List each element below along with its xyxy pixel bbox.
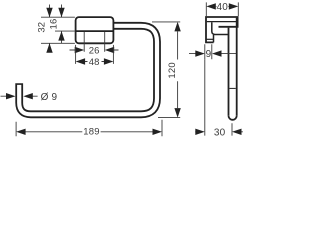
dim 189 extension lines <box>16 120 162 137</box>
svg-text:Ø 9: Ø 9 <box>41 92 58 103</box>
svg-text:16: 16 <box>49 19 60 30</box>
ring bar edge-on (side view) <box>229 18 237 116</box>
dim 26 <box>70 49 119 51</box>
svg-text:9: 9 <box>206 49 212 60</box>
bar bottom cap <box>229 116 237 120</box>
side view: wall plate and arm profile <box>206 17 238 42</box>
dim 9 <box>189 53 236 55</box>
extension line plate top <box>41 16 75 18</box>
svg-text:26: 26 <box>89 46 100 57</box>
foot right face <box>213 35 215 42</box>
dim 40 extension lines <box>206 2 238 16</box>
screw extension line left <box>83 32 85 52</box>
dim dia 9 arrows <box>1 95 38 97</box>
dim 48 <box>84 61 106 63</box>
svg-text:30: 30 <box>214 127 226 138</box>
svg-text:120: 120 <box>167 62 178 78</box>
dim 16 line <box>61 5 63 44</box>
arm bottom inner line <box>207 21 237 23</box>
dim 189 <box>24 131 154 133</box>
svg-text:48: 48 <box>89 57 100 68</box>
wall plate (front view) <box>76 17 114 43</box>
dim 30 <box>195 131 243 133</box>
extension line plate bottom <box>41 42 75 44</box>
dim 32 line <box>49 5 51 52</box>
dim 9 extension lines <box>205 44 212 59</box>
dim 48 extension lines <box>76 45 114 64</box>
bracket step <box>212 22 229 34</box>
dim 40 <box>216 5 229 7</box>
svg-text:189: 189 <box>83 127 99 138</box>
dim 30 extension lines <box>205 59 232 135</box>
dim 120 <box>177 31 179 108</box>
towel ring loop (front view) <box>19 26 157 115</box>
bar seam tick <box>229 87 235 89</box>
svg-text:32: 32 <box>37 22 48 33</box>
screw extension line right <box>104 32 106 52</box>
plate split line <box>76 30 113 32</box>
extension line split <box>55 30 75 32</box>
svg-text:40: 40 <box>217 2 229 13</box>
foot inner line <box>207 38 214 40</box>
dim 120 extension lines <box>152 22 180 118</box>
